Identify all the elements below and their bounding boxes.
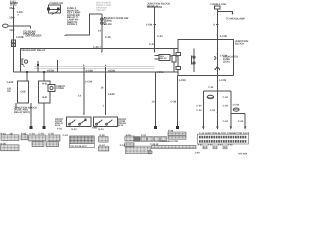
svg-text:TO HEADLAMP: TO HEADLAMP [226,18,245,21]
svg-text:14: 14 [98,29,101,32]
svg-text:E-13: E-13 [99,128,105,131]
svg-text:8: 8 [213,24,215,27]
svg-text:B-06: B-06 [1,142,7,145]
svg-text:30: 30 [9,6,13,10]
svg-text:E-08: E-08 [100,134,106,137]
svg-text:C-23: C-23 [157,35,163,38]
svg-text:4-G08: 4-G08 [86,69,94,72]
svg-text:C-04: C-04 [39,132,45,135]
svg-text:C-04: C-04 [223,120,229,123]
svg-text:C-04: C-04 [238,120,244,123]
svg-text:A-05: A-05 [228,144,234,147]
svg-text:FUSIBLE LINK: FUSIBLE LINK [211,3,227,6]
svg-text:C-04: C-04 [196,105,202,108]
svg-text:C-23 JUNCTION BLOCK CONNECTOR: C-23 JUNCTION BLOCK CONNECTOR FACE VIEW [199,132,250,135]
svg-text:C-05: C-05 [105,36,111,39]
svg-text:16: 16 [9,16,13,20]
svg-text:1-C08: 1-C08 [179,79,187,82]
svg-text:75C.DC38.AC2: 75C.DC38.AC2 [70,145,87,148]
svg-text:12: 12 [9,28,13,32]
svg-text:(FUSE 4): (FUSE 4) [147,5,158,8]
svg-text:E-36: E-36 [168,130,174,133]
svg-text:GND: GND [92,127,98,130]
svg-text:1-D6: 1-D6 [17,10,24,14]
svg-text:4-E08: 4-E08 [47,69,54,72]
svg-text:KH-A09: KH-A09 [239,153,248,156]
svg-text:A-04: A-04 [218,144,224,147]
svg-text:RELAY BOX): RELAY BOX) [14,111,30,114]
svg-text:2B: 2B [10,132,13,135]
svg-text:E-13: E-13 [72,128,78,131]
svg-text:14: 14 [78,94,81,97]
svg-text:1-C08: 1-C08 [232,104,239,107]
svg-text:16: 16 [101,86,104,89]
svg-text:1-5W: 1-5W [146,24,153,27]
svg-text:DEFOGGER: DEFOGGER [26,34,42,38]
svg-text:F-10: F-10 [141,134,147,137]
svg-text:(15A): (15A) [223,60,230,63]
svg-text:4-E08: 4-E08 [157,71,164,74]
svg-text:1-E08: 1-E08 [108,93,115,96]
svg-text:B-01: B-01 [1,132,7,135]
svg-text:1-E36: 1-E36 [6,81,13,84]
svg-text:C-08 W: C-08 W [150,143,159,146]
svg-text:1-D6: 1-D6 [106,23,112,26]
svg-text:1-C08: 1-C08 [219,79,227,82]
svg-text:C-05 7: C-05 7 [93,46,101,49]
svg-text:C-04: C-04 [223,96,229,99]
svg-text:B-13: B-13 [118,124,124,127]
svg-text:POWER SW: POWER SW [50,2,64,5]
svg-text:C-08 1-B8 2-C08: C-08 1-B8 2-C08 [160,140,179,143]
svg-text:VD: VD [7,90,11,93]
svg-text:H-B: H-B [42,96,47,99]
svg-text:A-03: A-03 [208,144,214,147]
svg-text:E-13: E-13 [100,144,106,147]
svg-text:BLOCK: BLOCK [235,42,244,45]
svg-text:C-23: C-23 [149,43,155,46]
svg-text:C-05: C-05 [49,132,55,135]
svg-text:RELAY: RELAY [160,57,168,60]
svg-text:CONN: CONN [56,87,64,90]
svg-text:1-E28: 1-E28 [16,35,24,39]
svg-text:14: 14 [152,100,155,103]
svg-text:C-23: C-23 [63,134,69,137]
svg-text:F-02: F-02 [126,134,132,137]
svg-text:1: 1 [103,105,105,108]
svg-text:C-04: C-04 [196,109,202,112]
svg-text:HEADLAMP RELAY: HEADLAMP RELAY [22,49,46,52]
svg-text:4-E08: 4-E08 [108,69,115,72]
svg-text:2-C08: 2-C08 [220,35,228,38]
svg-text:C-04: C-04 [210,109,216,112]
svg-text:1-C08: 1-C08 [85,80,93,83]
svg-text:5: 5 [18,14,20,17]
svg-text:A-02: A-02 [198,144,204,147]
svg-text:G08: G08 [21,91,26,94]
svg-text:C-03: C-03 [30,132,36,135]
svg-text:C-04: C-04 [208,86,214,89]
svg-text:C-08: C-08 [171,100,177,103]
svg-text:H-B: H-B [42,83,47,86]
svg-text:1-A9: 1-A9 [195,151,201,154]
svg-text:F-01: F-01 [57,127,63,130]
svg-text:C-04: C-04 [223,104,229,107]
svg-text:F-14: F-14 [120,144,126,147]
svg-text:CIRCUIT: CIRCUIT [96,9,106,12]
svg-text:DIODE 2: DIODE 2 [67,23,78,26]
svg-text:F-06: F-06 [21,132,27,135]
